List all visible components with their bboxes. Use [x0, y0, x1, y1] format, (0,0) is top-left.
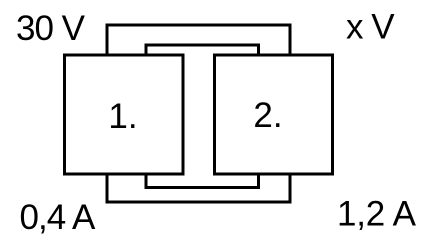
svg-text:30 V: 30 V	[16, 9, 86, 48]
svg-text:x V: x V	[346, 8, 395, 47]
svg-text:2.: 2.	[253, 96, 282, 135]
winding 1 (primary coil box)	[65, 55, 184, 174]
svg-text:0,4 A: 0,4 A	[20, 198, 96, 237]
svg-text:1.: 1.	[108, 97, 137, 136]
svg-text:1,2 A: 1,2 A	[337, 195, 417, 234]
winding 2 (secondary coil box)	[215, 55, 333, 174]
wire: transformer core inner loop	[146, 45, 259, 188]
wire: transformer core outer loop	[107, 25, 290, 202]
